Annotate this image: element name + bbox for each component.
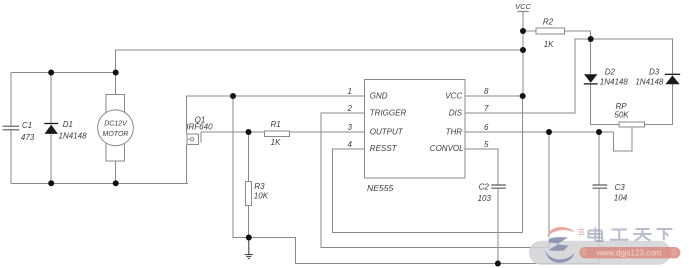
watermark red ticks before text: [579, 230, 585, 235]
wire GND riser from pin1 junction: [233, 96, 249, 238]
wire pin8 VCC: [465, 95, 523, 97]
IC U1 NE555 box: [365, 80, 466, 178]
svg-text:473: 473: [21, 133, 35, 142]
wire top-left rail: [11, 72, 116, 74]
svg-text:1K: 1K: [271, 138, 281, 147]
wire Q1 source: [186, 144, 188, 183]
node motor bottom junction: [113, 180, 119, 186]
node C2 ground junction: [495, 261, 501, 267]
wire CONVOL to C2: [465, 149, 498, 185]
wire pot wiper staircase: [614, 127, 633, 151]
watermark text dian: [589, 228, 603, 242]
watermark banner right ticks: [672, 250, 677, 255]
wire ground rail bottom: [249, 238, 599, 264]
svg-text:6: 6: [484, 123, 489, 132]
svg-text:R1: R1: [271, 120, 281, 129]
diode D3: [665, 74, 680, 84]
wire D1 branch: [50, 73, 52, 184]
capacitor C3: [593, 185, 608, 188]
svg-text:GND: GND: [370, 91, 388, 100]
node VCC motor junction: [520, 47, 526, 53]
node R3 top junction: [246, 129, 252, 135]
svg-text:50K: 50K: [614, 110, 629, 119]
svg-text:THR: THR: [446, 127, 463, 136]
watermark logo sigma shape: [549, 237, 569, 251]
wire VCC stem: [522, 12, 524, 97]
watermark text tian: [634, 229, 652, 241]
node VCC R2 junction: [520, 28, 526, 34]
svg-text:7: 7: [484, 104, 489, 113]
svg-text:1N4148: 1N4148: [59, 131, 88, 140]
node D1 top junction: [48, 70, 54, 76]
wire trigger loop: [321, 113, 549, 248]
svg-text:R3: R3: [254, 182, 265, 191]
svg-text:5: 5: [484, 140, 489, 149]
svg-text:104: 104: [614, 193, 628, 202]
wire left vertical (C1 branch): [10, 73, 12, 184]
svg-text:RESST: RESST: [370, 144, 398, 153]
svg-text:DC12V: DC12V: [104, 120, 128, 127]
power VCC symbol: [515, 2, 531, 12]
resistor R3: [245, 181, 251, 205]
node VCC pin8 junction: [520, 93, 526, 99]
svg-text:MOTOR: MOTOR: [103, 131, 129, 138]
wire top right link to D3: [591, 39, 673, 74]
wire motor to VCC link: [116, 50, 523, 73]
wire THR line: [465, 131, 613, 133]
svg-text:1: 1: [348, 87, 352, 96]
ground symbol: [245, 238, 253, 259]
node THR trigger junction: [546, 129, 552, 135]
watermark gray band: [529, 241, 671, 265]
svg-text:4: 4: [348, 140, 353, 149]
svg-text:10K: 10K: [254, 191, 269, 200]
wire D2 anode: [590, 39, 592, 74]
node D1 bottom junction: [48, 180, 54, 186]
watermark group: [529, 227, 681, 265]
watermark text xia: [657, 229, 673, 241]
wire pin1 GND to Q1 drain: [187, 96, 365, 134]
capacitor C1: [3, 126, 20, 130]
wire reset loop: [333, 96, 523, 233]
diode D2: [584, 74, 598, 84]
svg-text:C1: C1: [22, 121, 32, 130]
wire R2 right: [565, 31, 591, 39]
resistor R1: [265, 131, 290, 137]
svg-text:C2: C2: [479, 182, 490, 191]
wire D2 cathode to pot left: [591, 84, 619, 125]
wire DIS loop: [465, 39, 591, 113]
wire bottom-left rail: [11, 182, 188, 184]
svg-text:D2: D2: [605, 67, 616, 76]
IC U1 pin names: [370, 91, 464, 153]
wire R2 left: [523, 30, 536, 32]
wire C2 bottom: [497, 188, 499, 263]
svg-text:TRIGGER: TRIGGER: [370, 108, 407, 117]
wire D3 bottom to pot right: [644, 84, 672, 124]
wire output line gate to R1: [201, 131, 265, 133]
svg-text:IRF640: IRF640: [186, 123, 213, 132]
wire R3 bottom: [247, 205, 249, 237]
svg-text:NE555: NE555: [367, 183, 393, 193]
wire R1 to pin3: [290, 131, 365, 133]
watermark logo white gap: [548, 232, 574, 240]
node pin1 gnd junction: [230, 93, 236, 99]
node THR C3 junction: [596, 129, 602, 135]
svg-text:C3: C3: [615, 183, 626, 192]
watermark logo red crescent: [548, 227, 575, 236]
node R3 ground junction: [246, 235, 252, 241]
svg-text:CONVOL: CONVOL: [430, 144, 464, 153]
svg-text:3: 3: [348, 123, 353, 132]
svg-text:103: 103: [478, 194, 492, 203]
svg-text:DIS: DIS: [449, 108, 463, 117]
wire Q1 gate riser: [200, 132, 202, 143]
node motor top junction: [113, 70, 119, 76]
potentiometer RP: [619, 122, 644, 127]
svg-text:D3: D3: [649, 67, 660, 76]
svg-text:D1: D1: [63, 120, 73, 129]
node R2 D2 junction: [588, 36, 594, 42]
wire C3 top: [598, 132, 600, 185]
capacitor C2: [491, 185, 506, 188]
svg-text:1K: 1K: [544, 40, 554, 49]
svg-text:VCC: VCC: [515, 2, 531, 11]
transistor Q1: [187, 134, 199, 144]
svg-text:VCC: VCC: [445, 91, 462, 100]
wire R3 top: [247, 132, 249, 181]
svg-text:R2: R2: [543, 17, 554, 26]
resistor R2: [536, 28, 564, 34]
svg-text:2: 2: [347, 104, 353, 113]
wire motor bottom: [115, 161, 117, 183]
wire motor top: [115, 73, 117, 95]
watermark red banner: [579, 247, 680, 258]
svg-text:www.dgjs123.com: www.dgjs123.com: [596, 249, 662, 258]
diode D1: [44, 124, 58, 134]
motor M1: [98, 94, 134, 161]
watermark logo bottom arc: [545, 250, 575, 263]
wire C3 bottom: [598, 188, 600, 263]
svg-text:8: 8: [484, 87, 489, 96]
svg-text:OUTPUT: OUTPUT: [370, 127, 404, 136]
svg-text:1N4148: 1N4148: [635, 78, 664, 87]
watermark banner left ticks: [582, 250, 587, 255]
watermark text gong: [610, 230, 629, 240]
svg-text:1N4148: 1N4148: [600, 78, 629, 87]
